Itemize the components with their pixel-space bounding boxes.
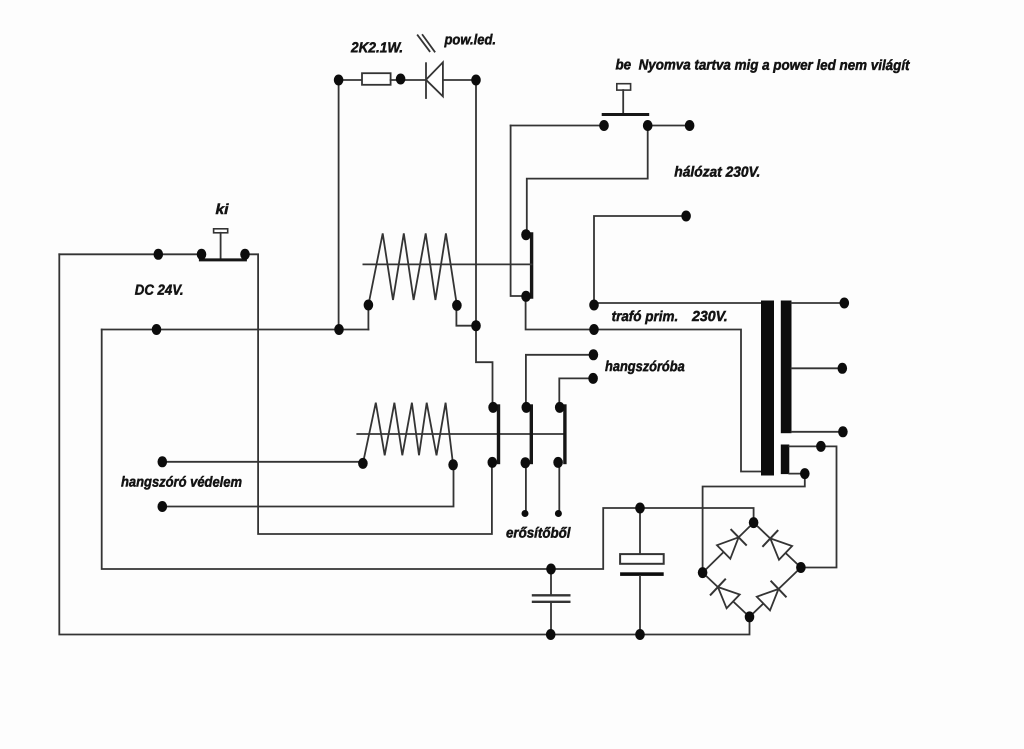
contact B bar bbox=[530, 406, 533, 463]
label pow.led. bbox=[444, 32, 496, 48]
node bridge - bbox=[745, 611, 755, 622]
pushbutton ki actuator cap bbox=[214, 229, 228, 233]
diode D4 bottom-right bbox=[757, 581, 786, 610]
terminal aux winding top bbox=[816, 441, 826, 452]
bridge rectifier side bottom-right bbox=[750, 568, 801, 617]
wire: right vertical from LED down to node bbox=[475, 80, 477, 326]
wire: halozat terminal to primary top bbox=[594, 216, 686, 305]
terminal hangszoroba 2 bbox=[588, 373, 598, 384]
junction C1 bottom bbox=[546, 629, 556, 640]
wire: aux winding bottom to bridge left bbox=[703, 474, 805, 573]
node bridge AC left bbox=[698, 567, 708, 578]
junction rail / LED branch bbox=[334, 324, 344, 335]
svg-text:hangszóró védelem: hangszóró védelem bbox=[121, 475, 242, 491]
wire: contact C bottom to erositobol terminal bbox=[558, 462, 560, 513]
capacitor C1 top lead bbox=[550, 569, 552, 594]
junction node A bbox=[471, 320, 481, 331]
LED light ray 2 bbox=[423, 35, 435, 52]
node contact C top bbox=[555, 402, 565, 413]
junction be left bbox=[599, 120, 609, 131]
pushbutton ki stem bbox=[220, 233, 222, 260]
wire: secondary tap 3 bbox=[792, 431, 843, 433]
diode D2 top-right bbox=[763, 531, 792, 560]
terminal erositobol 2 bbox=[555, 510, 562, 517]
wire: bridge + output to filter caps bbox=[102, 330, 754, 570]
relay coil K2 zigzag bbox=[363, 403, 453, 465]
bridge rectifier side top-right bbox=[754, 523, 801, 568]
wire: bridge - output bottom rail bbox=[59, 254, 749, 634]
node coil K2 right bbox=[448, 459, 458, 470]
wire: be right side down to contact top bbox=[527, 126, 648, 235]
pushbutton be bar bbox=[603, 113, 648, 116]
wire: hangszoroba lead 1 to contact B bbox=[526, 355, 594, 408]
wire: LED branch left lead bbox=[339, 79, 362, 81]
wire: primary top lead bbox=[594, 302, 762, 304]
wire: speaker protection lead 2 bbox=[162, 465, 453, 507]
label hangszoroba bbox=[605, 359, 685, 375]
node contact A bottom bbox=[488, 457, 498, 468]
capacitor C2 negative plate bbox=[620, 572, 664, 576]
bridge rectifier side left-top bbox=[703, 523, 754, 573]
relay coil K1 zigzag bbox=[368, 233, 457, 305]
capacitor C1 plate bottom bbox=[533, 601, 569, 603]
label halozat 230V. bbox=[674, 165, 760, 181]
svg-text:hálózat 230V.: hálózat 230V. bbox=[674, 165, 760, 181]
label 230V. bbox=[691, 309, 728, 325]
wire: secondary tap 2 bbox=[792, 367, 843, 369]
terminal secondary 3 bbox=[838, 426, 848, 437]
terminal trafo prim bottom bbox=[589, 324, 599, 335]
terminal vedelem 2 bbox=[158, 501, 168, 512]
svg-text:hangszóróba: hangszóróba bbox=[605, 359, 685, 375]
junction ki left bbox=[197, 249, 207, 260]
terminal hangszoroba 1 bbox=[589, 349, 599, 360]
pushbutton be stem bbox=[622, 90, 624, 113]
wire: rail up to coil K1 left bbox=[367, 305, 369, 330]
junction C1 top bbox=[546, 564, 556, 575]
wire: LED to right node bbox=[443, 79, 476, 81]
transformer T1 auxiliary winding bar bbox=[781, 445, 790, 475]
capacitor C2 bottom lead bbox=[639, 576, 641, 635]
junction be right bbox=[643, 120, 653, 131]
bridge rectifier side left-bottom bbox=[703, 573, 750, 617]
value label 2K2.1W. bbox=[350, 40, 403, 56]
relay contact K1 bar bbox=[530, 234, 533, 297]
wire: contact B bottom to erositobol terminal bbox=[525, 463, 527, 514]
terminal trafo prim top bbox=[589, 300, 599, 311]
terminal aux winding bottom bbox=[800, 468, 810, 479]
wire: be left lead bbox=[511, 125, 604, 127]
label trafo prim. bbox=[612, 309, 679, 325]
wire: aux winding top to bridge right bbox=[789, 446, 836, 567]
node contact K1a top bbox=[521, 229, 531, 240]
wire: be right lead bbox=[648, 125, 690, 127]
wire: left vertical from resistor down to +24V rail bbox=[338, 80, 340, 330]
diode D3 bottom-left bbox=[711, 579, 740, 608]
diode D1 top-left bbox=[717, 530, 746, 559]
terminal secondary 1 bbox=[840, 298, 850, 309]
terminal vedelem 1 bbox=[158, 456, 168, 467]
node contact C bottom bbox=[553, 457, 563, 468]
node coil K1 left bbox=[364, 300, 374, 311]
junction LED right bbox=[471, 75, 481, 86]
node coil K1 right bbox=[452, 300, 462, 311]
svg-text:be Nyomva tartva mig a power: be Nyomva tartva mig a power led nem vil… bbox=[615, 57, 910, 74]
node bridge + bbox=[749, 517, 759, 528]
wire: ki right to contact A bottom bbox=[245, 254, 492, 534]
junction C2 top bbox=[635, 503, 645, 514]
contact A bar bbox=[497, 406, 500, 463]
svg-text:erősítőből: erősítőből bbox=[506, 526, 571, 542]
transformer T1 primary bar bbox=[761, 301, 774, 476]
svg-text:230V.: 230V. bbox=[691, 309, 728, 325]
LED pow.led. cathode bar bbox=[425, 63, 427, 98]
capacitor C2 top lead bbox=[639, 508, 641, 554]
terminal DC24 plus bbox=[152, 324, 162, 335]
terminal secondary 2 bbox=[838, 363, 848, 374]
capacitor C1 bottom lead bbox=[550, 603, 552, 635]
wire: node down to contact A top bbox=[476, 326, 493, 408]
LED pow.led. triangle bbox=[426, 62, 443, 96]
capacitor C1 plate top bbox=[533, 594, 569, 596]
label ki bbox=[215, 202, 229, 218]
junction R1-LED bbox=[396, 74, 406, 85]
wire: ki left lead bbox=[59, 253, 201, 255]
relay coil K1 linkage line bbox=[363, 263, 531, 265]
terminal mains N halozat bbox=[681, 211, 691, 222]
terminal DC24 minus bbox=[154, 249, 164, 260]
capacitor C2 positive plate box bbox=[620, 554, 664, 564]
svg-text:DC 24V.: DC 24V. bbox=[135, 283, 184, 299]
node contact B top bbox=[522, 402, 532, 413]
terminal erositobol 1 bbox=[522, 510, 529, 517]
node bridge AC right bbox=[796, 562, 806, 573]
wire: hangszoroba lead 2 to contact C bbox=[559, 378, 593, 407]
label be Nyomva tartva bbox=[615, 57, 910, 74]
wire: contact bottom to primary bottom bbox=[526, 296, 762, 471]
LED light ray 1 bbox=[418, 35, 430, 51]
wire: be left vertical down bbox=[511, 126, 526, 297]
svg-text:ki: ki bbox=[215, 202, 229, 218]
wire: coil K1 right to node bbox=[456, 305, 476, 325]
relay coil K2 linkage line bbox=[357, 433, 565, 435]
wire: +24V horizontal rail bbox=[102, 329, 369, 331]
label DC 24V. bbox=[135, 283, 184, 299]
junction ki right bbox=[240, 249, 250, 260]
wire: secondary tap 1 bbox=[792, 302, 845, 304]
node contact B bottom bbox=[521, 457, 531, 468]
svg-text:trafó prim.: trafó prim. bbox=[612, 309, 679, 325]
node coil K2 left bbox=[358, 458, 368, 469]
junction LED left / R1 bbox=[334, 75, 344, 86]
wire: speaker protection lead 1 bbox=[162, 461, 363, 463]
wire: resistor to LED bbox=[391, 79, 426, 81]
svg-text:pow.led.: pow.led. bbox=[444, 32, 496, 48]
pushbutton ki bar bbox=[200, 258, 245, 261]
contact C bar bbox=[563, 406, 566, 463]
svg-text:2K2.1W.: 2K2.1W. bbox=[350, 40, 403, 56]
resistor 2K2 1W body bbox=[362, 73, 391, 85]
junction C2 bottom bbox=[635, 629, 645, 640]
node contact A top bbox=[488, 402, 498, 413]
node contact K1a bottom bbox=[521, 291, 531, 302]
label hangszoro vedelem bbox=[121, 475, 242, 491]
pushbutton be actuator cap bbox=[617, 84, 631, 90]
label erositobol bbox=[506, 526, 571, 542]
terminal mains L bbox=[685, 120, 695, 131]
transformer T1 secondary bar bbox=[781, 301, 792, 434]
